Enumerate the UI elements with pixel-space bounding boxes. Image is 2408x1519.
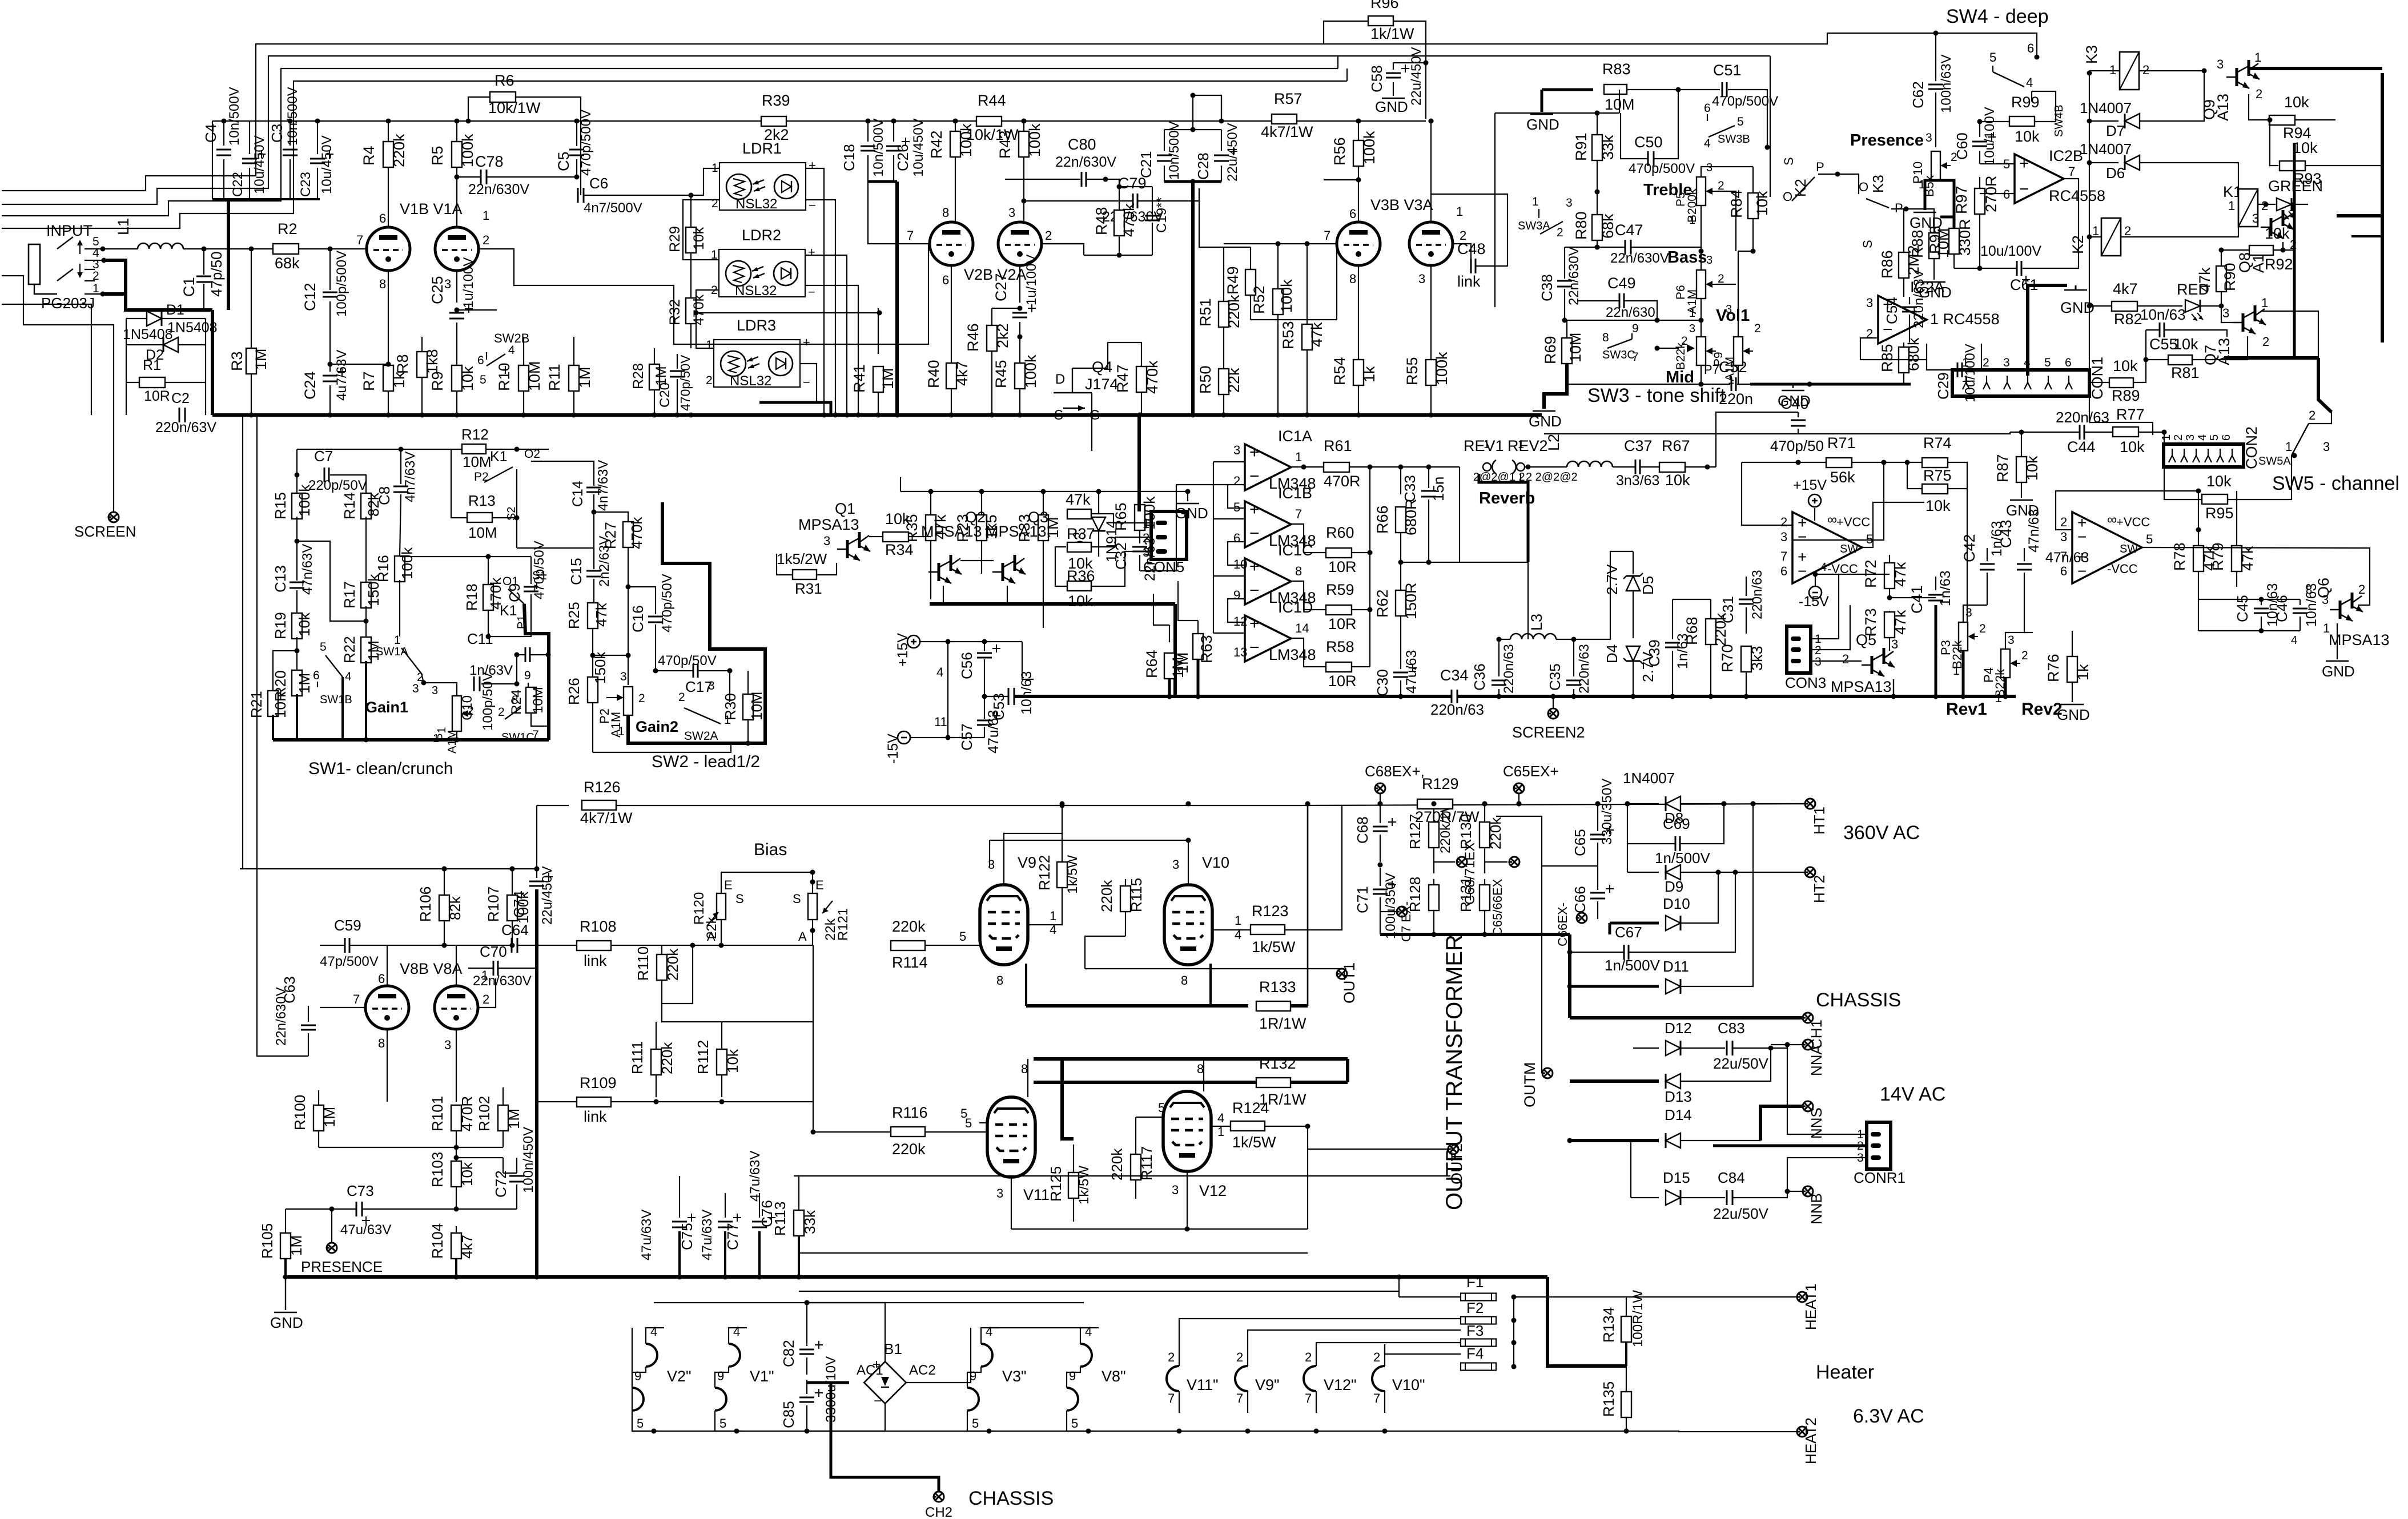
svg-text:2: 2 [1143,531,1149,545]
ground R83 [1541,90,1543,112]
potentiometer P6 A1M [1697,270,1706,299]
svg-text:4: 4 [1235,928,1241,942]
svg-text:Q1: Q1 [835,500,855,517]
svg-text:SW3B: SW3B [1718,133,1750,146]
terminal NNB [1785,1189,1790,1194]
wire V12 grid [1136,1117,1163,1118]
svg-text:10k: 10k [1068,593,1093,610]
svg-text:D1: D1 [166,302,184,318]
resistor R108 link [577,941,611,950]
svg-text:10M: 10M [468,524,497,541]
svg-text:R50: R50 [1197,365,1214,394]
capacitor C75 47u/63V [672,1221,687,1223]
svg-text:3: 3 [1925,131,1932,144]
wire bus stair line 3 [2,69,1338,216]
svg-text:47u/63V: 47u/63V [700,1210,715,1260]
wire long return lines [794,1175,1450,1176]
wire V8 grid feed [320,1007,364,1008]
svg-text:1M: 1M [1174,652,1191,674]
capacitor C34 220n/63 [1451,690,1453,703]
terminal SCREEN [108,512,119,522]
svg-text:3: 3 [996,1186,1003,1200]
ground bottom left [285,1277,286,1310]
svg-text:SW3C: SW3C [1602,349,1635,361]
resistor R70 3k3 [1741,646,1751,672]
svg-text:7: 7 [1305,1391,1312,1405]
ground R87 [2010,499,2033,501]
wire SW1 left bus verticals [242,417,243,869]
wire P5 P6 wipers to R84 [1716,191,1736,251]
transistor Q8 A13 [2270,218,2273,236]
wire C18 C26 bottom thick [868,180,897,183]
svg-text:10k: 10k [2015,128,2040,145]
svg-text:1: 1 [2254,50,2261,65]
svg-text:−: − [808,285,815,299]
svg-text:IC1C: IC1C [1278,542,1313,559]
svg-text:SW2A: SW2A [684,730,718,743]
svg-text:56k: 56k [1830,469,1855,486]
capacitor C65 330u/350V [1590,834,1605,836]
svg-text:R77: R77 [2116,406,2145,423]
svg-text:22n/630V: 22n/630V [1566,247,1582,305]
capacitor C30 47u/63 [1400,644,1401,669]
wire screen rail top [536,805,537,869]
svg-text:1: 1 [2261,296,2268,310]
resistor R78 47k [2193,546,2204,571]
junction dots bottom ground [283,1275,288,1280]
svg-text:1: 1 [1532,195,1539,208]
svg-text:R51: R51 [1197,298,1214,327]
svg-text:C67: C67 [1615,924,1642,941]
capacitor C48 link [1454,244,1471,266]
svg-text:2: 2 [2021,649,2028,662]
svg-text:O: O [1859,180,1868,194]
capacitor C23 10u/450V [310,158,325,160]
wire -vcc node [1815,574,1890,575]
wire R134 to HEAT1 [1514,1296,1626,1298]
svg-text:-VCC: -VCC [2107,562,2138,576]
svg-text:2: 2 [1045,228,1052,243]
svg-text:HEAT2: HEAT2 [1802,1417,1819,1464]
svg-text:R5: R5 [429,146,446,166]
svg-text:C57: C57 [958,723,975,751]
resistor R20 1M [292,670,302,696]
svg-text:1: 1 [1050,909,1056,923]
resistor R129 270R/7W [1417,799,1453,809]
svg-text:1: 1 [1995,692,2002,705]
svg-text:1n/63: 1n/63 [1937,570,1953,606]
svg-text:K3: K3 [1870,175,1887,193]
resistor R23 1k5 [976,515,987,541]
capacitor C33 15n [1428,478,1429,488]
power tube V11 [987,1097,1035,1177]
heater V12" [1316,1344,1317,1366]
capacitor C52 220n [1731,377,1732,391]
svg-text:C62: C62 [1909,81,1927,108]
svg-text:C49: C49 [1607,275,1636,292]
svg-text:R9: R9 [429,371,446,391]
wire SW2 top [594,512,628,523]
svg-text:D9: D9 [1665,878,1683,895]
svg-text:link: link [1457,273,1481,290]
svg-text:4: 4 [2291,634,2297,647]
svg-text:22k: 22k [1225,368,1243,393]
svg-text:+: + [873,1357,881,1372]
capacitor C3 10n/500V [290,121,291,146]
wire Q8 emitter [2282,242,2284,250]
svg-text:10n/500V: 10n/500V [285,87,300,146]
svg-text:3: 3 [1706,254,1712,267]
svg-text:L3: L3 [1528,614,1545,631]
svg-text:C65: C65 [1571,829,1589,856]
resistor R57 4k7/1W [1272,114,1297,124]
svg-text:100k: 100k [958,123,975,157]
svg-text:C15: C15 [568,558,585,585]
svg-text:C51: C51 [1713,62,1742,79]
svg-text:10M: 10M [526,361,543,391]
resistor R49 100k [1245,269,1256,295]
svg-text:R108: R108 [580,918,617,935]
diode D14 [1570,1139,1659,1142]
svg-text:100k: 100k [1361,131,1378,164]
op-amp IC1C LM348 [1245,558,1291,605]
svg-text:R85: R85 [1879,344,1896,372]
svg-text:R83: R83 [1602,61,1631,78]
wire chassis 2 thick [807,1381,849,1384]
resistor R43 100k [1023,121,1024,132]
svg-text:R64: R64 [1143,650,1160,678]
svg-text:7: 7 [1373,1391,1380,1405]
svg-text:47u/63V: 47u/63V [747,1151,763,1202]
svg-text:5: 5 [1233,500,1240,514]
svg-text:3: 3 [1172,1183,1179,1197]
svg-text:B22k: B22k [1674,343,1687,370]
svg-text:3: 3 [1891,637,1898,651]
svg-text:2k2: 2k2 [994,323,1011,348]
svg-text:1: 1 [2160,434,2173,441]
svg-text:GND: GND [1529,413,1562,430]
resistor R28 1M [649,364,660,390]
svg-text:IC1B: IC1B [1278,485,1312,502]
svg-text:2: 2 [1842,652,1849,666]
svg-text:R101: R101 [429,1096,446,1131]
svg-text:5: 5 [2208,434,2221,441]
svg-text:3: 3 [1566,196,1573,209]
svg-text:470R: 470R [459,1096,476,1131]
resistor R11 1M [573,337,574,366]
resistor R104 4k7 [451,1233,461,1259]
svg-text:-15V: -15V [1799,594,1829,610]
svg-text:R91: R91 [1573,132,1590,161]
wire bus stair line 1 [2,44,1324,191]
svg-text:NSL32: NSL32 [735,283,777,299]
wire C13 to R17 [297,541,366,621]
svg-text:R80: R80 [1573,211,1590,240]
diode D7 1N4007 [2089,120,2118,122]
svg-text:R99: R99 [2011,94,2040,111]
svg-text:10R: 10R [1328,615,1357,632]
capacitor C24 4u7/63V [329,364,331,372]
svg-text:R15: R15 [272,492,289,519]
svg-text:2: 2 [638,692,645,705]
diode D10 [1610,922,1659,925]
svg-text:3: 3 [1815,655,1822,668]
svg-text:10k: 10k [885,510,910,527]
svg-text:6: 6 [477,354,484,367]
terminal OUT2 [1308,1149,1448,1150]
svg-text:−: − [874,1393,882,1409]
wire bottom ground bus [286,1275,956,1279]
svg-text:-15V: -15V [885,734,901,764]
capacitor C78 22n/630V [455,175,460,180]
capacitor C62 100n/63V [1933,31,1939,36]
resistor R61 470R [1324,462,1349,472]
svg-text:68k: 68k [1599,213,1617,239]
resistor R2 68k [273,244,299,254]
svg-text:10u/450V: 10u/450V [911,118,926,177]
resistor R76 1k [2067,656,2077,682]
svg-text:330u/350V: 330u/350V [1599,779,1615,845]
wire CON2 feeds [2089,422,2153,435]
svg-text:GND: GND [1526,116,1559,133]
svg-text:10u/100V: 10u/100V [1980,243,2041,259]
svg-text:V10": V10" [1392,1376,1425,1393]
svg-text:9: 9 [524,669,531,682]
svg-text:C59: C59 [334,917,361,934]
svg-text:1: 1 [706,339,713,352]
svg-text:680k: 680k [1905,337,1922,371]
svg-text:6: 6 [2027,41,2034,55]
resistor R82 4k7 [2112,301,2137,311]
svg-text:7: 7 [1236,1391,1243,1405]
capacitor C73 47u/63V [356,1202,357,1216]
svg-text:C24: C24 [301,371,319,400]
svg-text:R25: R25 [565,602,582,629]
svg-text:C78: C78 [475,153,504,170]
ground R88 [1923,281,1945,283]
svg-text:Gain2: Gain2 [636,718,678,735]
resistor R84 10k [1748,193,1758,219]
svg-text:V9": V9" [1255,1376,1280,1393]
svg-text:C3: C3 [268,124,286,143]
wire filter cap bottom rail [212,198,320,200]
resistor R130 220k [1480,822,1490,848]
svg-text:3: 3 [1233,443,1240,457]
resistor R34 10k [883,532,908,542]
svg-text:PG203J: PG203J [41,295,95,312]
resistor R111 220k [656,1022,657,1049]
svg-text:R114: R114 [892,954,928,971]
svg-text:7: 7 [1780,549,1787,563]
svg-text:C35: C35 [1546,663,1563,691]
svg-text:470p/500V: 470p/500V [1712,94,1778,109]
svg-text:1R/1W: 1R/1W [1259,1091,1306,1108]
svg-text:−: − [1249,467,1260,486]
resistor R29 10k [686,227,696,253]
svg-text:6: 6 [1349,207,1356,221]
svg-text:6: 6 [1233,531,1240,545]
svg-text:8: 8 [1197,1062,1204,1076]
resistor R81 10k [2168,355,2192,365]
resistor R72 47k [1884,563,1895,589]
svg-text:REV2: REV2 [1507,437,1548,454]
wire thick channel bus [2224,356,2318,360]
resistor R80 68k [1592,215,1602,240]
zener D5 2.7V [1633,551,1634,574]
svg-text:V11: V11 [1023,1186,1050,1203]
wire Q2 Q3 collectors [960,560,994,561]
svg-text:A13: A13 [2216,338,2233,365]
power +15V [907,635,920,648]
svg-text:47k: 47k [593,602,610,627]
svg-text:GND: GND [2322,663,2355,680]
resistor R101 470R [451,1105,461,1131]
svg-text:8: 8 [942,206,949,220]
svg-text:4n7/63V: 4n7/63V [596,460,611,511]
svg-text:NSL32: NSL32 [735,196,777,212]
svg-text:470p/50: 470p/50 [1770,437,1824,454]
svg-text:2: 2 [1373,1350,1380,1364]
wire C40 loop [1716,412,1798,467]
svg-text:D5: D5 [1639,576,1657,595]
svg-text:22n/630V: 22n/630V [1610,251,1669,266]
svg-text:1R/1W: 1R/1W [1259,1015,1306,1032]
capacitor C28 22u/450V [1221,130,1222,151]
resistor R116 220k [891,1127,925,1137]
svg-text:8: 8 [1181,973,1188,988]
resistor R47 470k [1141,354,1142,367]
resistor R21 10R [273,651,297,693]
svg-text:R82: R82 [2114,311,2142,328]
svg-text:1M: 1M [576,366,593,388]
wire input protection branch [126,319,127,415]
svg-text:10k: 10k [2206,473,2232,490]
svg-text:4: 4 [650,1324,657,1339]
svg-text:7: 7 [2068,164,2075,179]
svg-text:1k/5W: 1k/5W [1076,1166,1092,1204]
svg-text:D15: D15 [1663,1169,1690,1186]
svg-text:S: S [735,892,744,906]
triode V2A [998,222,1042,265]
resistor R74 [1922,458,1948,468]
resistor R85 680k [1899,347,1909,373]
capacitor C22 10u/450V [242,158,257,160]
capacitor C37 3n3/63 [1635,460,1637,474]
svg-text:4k7/1W: 4k7/1W [580,809,633,827]
svg-text:1: 1 [1456,204,1463,219]
svg-text:8: 8 [1295,564,1302,578]
resistor R4 220k [388,121,389,142]
wire input to L1 [103,248,138,249]
svg-text:R39: R39 [762,92,790,109]
svg-text:2: 2 [1780,515,1787,529]
svg-text:100n/450V: 100n/450V [521,1127,536,1193]
resistor R59 10R [1326,605,1352,615]
svg-text:100p/500V: 100p/500V [334,251,349,317]
svg-text:F2: F2 [1466,1299,1484,1316]
svg-text:C58: C58 [1368,65,1385,92]
svg-text:C47: C47 [1615,221,1643,239]
capacitor C55 10n/63 [2159,323,2161,337]
junction dots screen rail [442,867,447,872]
svg-text:−: − [1883,320,1893,339]
svg-text:V3B V3A: V3B V3A [1370,196,1433,213]
capacitor C79 22n/630V [1132,194,1134,208]
svg-text:22u/50V: 22u/50V [1713,1055,1769,1072]
svg-text:1k/5W: 1k/5W [1065,855,1080,894]
svg-text:R90: R90 [2221,263,2238,291]
svg-text:R115: R115 [1128,878,1145,912]
svg-text:3: 3 [2323,440,2330,454]
capacitor C5 470p/500V [576,121,577,146]
diode D6 1N4007 [2089,162,2118,163]
wire K1 thick out [524,604,549,740]
svg-text:220k: 220k [1487,817,1504,849]
svg-text:R106: R106 [417,887,434,922]
svg-text:R52: R52 [1251,285,1268,314]
svg-text:D14: D14 [1665,1106,1692,1123]
svg-text:R60: R60 [1326,524,1354,541]
svg-text:C48: C48 [1457,240,1486,257]
resistor R126 4k7/1W [537,805,569,806]
svg-text:9: 9 [717,1369,724,1383]
wire thick input ground loop [103,260,126,294]
svg-text:R11: R11 [546,364,563,391]
resistor R24 10M [526,687,536,713]
svg-text:C82: C82 [780,1340,797,1367]
wire V3B grid link [1251,319,1337,320]
svg-text:C42: C42 [1961,534,1978,562]
svg-text:C4: C4 [202,124,219,143]
svg-text:10k: 10k [459,366,476,391]
resistor R67 10k [1659,462,1685,472]
svg-text:R28: R28 [630,363,646,389]
resistor R69 10M [1562,338,1572,364]
svg-text:470k: 470k [628,517,645,549]
resistor R135 [1621,1392,1631,1417]
svg-text:R95: R95 [2205,505,2234,522]
svg-text:1N4007: 1N4007 [1623,769,1675,787]
svg-text:A: A [798,929,807,944]
heater V2" [646,1328,664,1344]
svg-text:5: 5 [719,1416,726,1431]
resistor R7 1k [383,365,393,391]
capacitor C83 22u/50V [1726,1041,1728,1055]
svg-text:R42: R42 [928,130,945,159]
wire heater bottom rail [632,1431,1626,1432]
svg-text:−: − [1249,581,1260,600]
resistor R115 220k [1120,886,1131,912]
wire OUT1 net [1085,968,1342,969]
svg-text:R31: R31 [795,580,822,597]
svg-text:R81: R81 [2171,364,2200,381]
svg-text:O: O [1783,190,1792,204]
heater V1" [729,1328,747,1344]
wire C79 to R49 column [1199,188,1224,247]
svg-text:R66: R66 [1374,505,1391,534]
svg-text:3: 3 [1418,272,1425,286]
svg-text:3: 3 [1780,530,1787,544]
diode D9 [1627,844,1628,872]
svg-text:10u/100V: 10u/100V [1963,344,1978,402]
wire R83 lower row [1495,112,1619,114]
capacitor C18 10n/500V [867,121,869,142]
resistor R83 10M [1542,88,1593,91]
svg-text:3k3: 3k3 [1748,646,1766,671]
svg-text:MPSA13: MPSA13 [986,523,1047,540]
svg-text:14V AC: 14V AC [1880,1083,1945,1105]
capacitor C16 470p/50V [628,587,656,614]
